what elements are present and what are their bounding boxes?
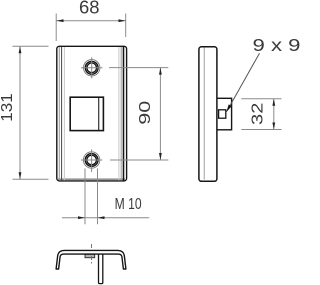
side view 9x9 hole square [219,110,226,118]
bottom view hat profile [56,250,126,269]
bottom hole centerline vertical [91,149,93,172]
side view bend line [203,48,205,180]
dimension M10 line [62,217,149,219]
dimension 32 extension line bottom [241,129,281,131]
top hole M10 middle circle [85,61,98,74]
top hole centerline horizontal [81,67,102,69]
front view left bend line 3 [63,47,65,180]
dimension 131 line [19,46,21,179]
dimension 90 line [159,68,161,160]
dimension M10 extension line left [84,169,86,225]
dimension 131 arrow bottom [19,172,22,179]
dimension 90 arrow top [159,68,162,75]
front view right bend line 2 [120,47,122,180]
svg-text:90: 90 [137,101,154,125]
dimension 32 extension line top [241,98,281,100]
dimension M10 extension line right [97,169,99,225]
svg-text:131: 131 [0,93,16,122]
front view right bend line 1 (thick) [123,47,125,181]
square hole 9x9 front view [70,97,103,130]
bottom view centerline [91,244,93,264]
dimension 131 extension line bottom [13,178,49,180]
dimension 32 line [273,99,275,130]
bottom hole M10 inner circle [87,155,97,165]
dimension 32 arrow top [272,99,275,106]
svg-text:68: 68 [79,0,100,17]
9x9 leader arrowhead [226,104,232,112]
svg-text:M 10: M 10 [115,196,142,213]
leader line from bottom hole / 90 extension bottom [110,159,168,161]
front view bottom bend line [58,178,125,180]
bottom hole centerline horizontal [81,159,102,161]
front view right bend line 3 [118,47,120,180]
top hole M10 inner circle [87,63,97,73]
side view plate outline [199,47,217,182]
9x9 leader line [229,53,259,107]
leader line from top hole / 90 extension top [109,67,168,69]
dimension 90 arrow bottom [159,153,162,160]
dimension M10 arrow left [78,216,85,219]
dimension 68 arrow right [119,19,126,22]
square hole inner depth line [98,98,100,130]
bottom hole M10 outer circle [83,152,99,168]
front view left bend line 2 [61,47,63,180]
front view left bend line 1 [58,47,60,180]
top hole M10 outer circle [84,60,100,76]
dimension 68 line [57,20,126,22]
dimension 32 arrow bottom [272,123,275,130]
side view bump (boss) [216,98,231,130]
bottom view weld nut (section) [85,254,95,257]
svg-text:9 x 9: 9 x 9 [253,35,301,55]
dimension 131 arrow top [19,46,22,53]
dimension 68 extension line right [125,14,127,38]
top hole centerline vertical [91,57,93,78]
dimension M10 arrow right [98,216,105,219]
dimension 131 extension line top [13,45,49,47]
dimension 68 extension line left [55,14,57,42]
front view plate outline [57,46,127,181]
bottom hole M10 middle circle [85,154,98,167]
bottom view stud/tab [99,252,103,284]
dimension 68 arrow left [57,19,64,22]
svg-text:32: 32 [250,103,267,125]
